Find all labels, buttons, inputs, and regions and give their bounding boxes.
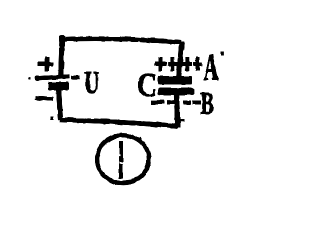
svg-text:U: U bbox=[84, 64, 100, 100]
svg-text:B: B bbox=[201, 85, 215, 121]
svg-text:A: A bbox=[204, 47, 219, 89]
svg-text:C: C bbox=[137, 67, 157, 104]
